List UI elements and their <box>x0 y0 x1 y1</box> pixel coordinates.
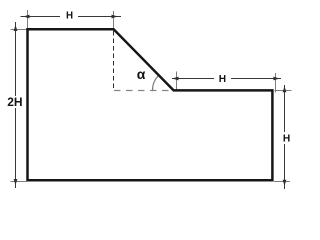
svg-text:α: α <box>137 66 146 82</box>
svg-text:H: H <box>66 11 73 22</box>
svg-text:H: H <box>283 134 290 145</box>
svg-text:2H: 2H <box>7 95 22 109</box>
svg-text:H: H <box>219 74 226 85</box>
